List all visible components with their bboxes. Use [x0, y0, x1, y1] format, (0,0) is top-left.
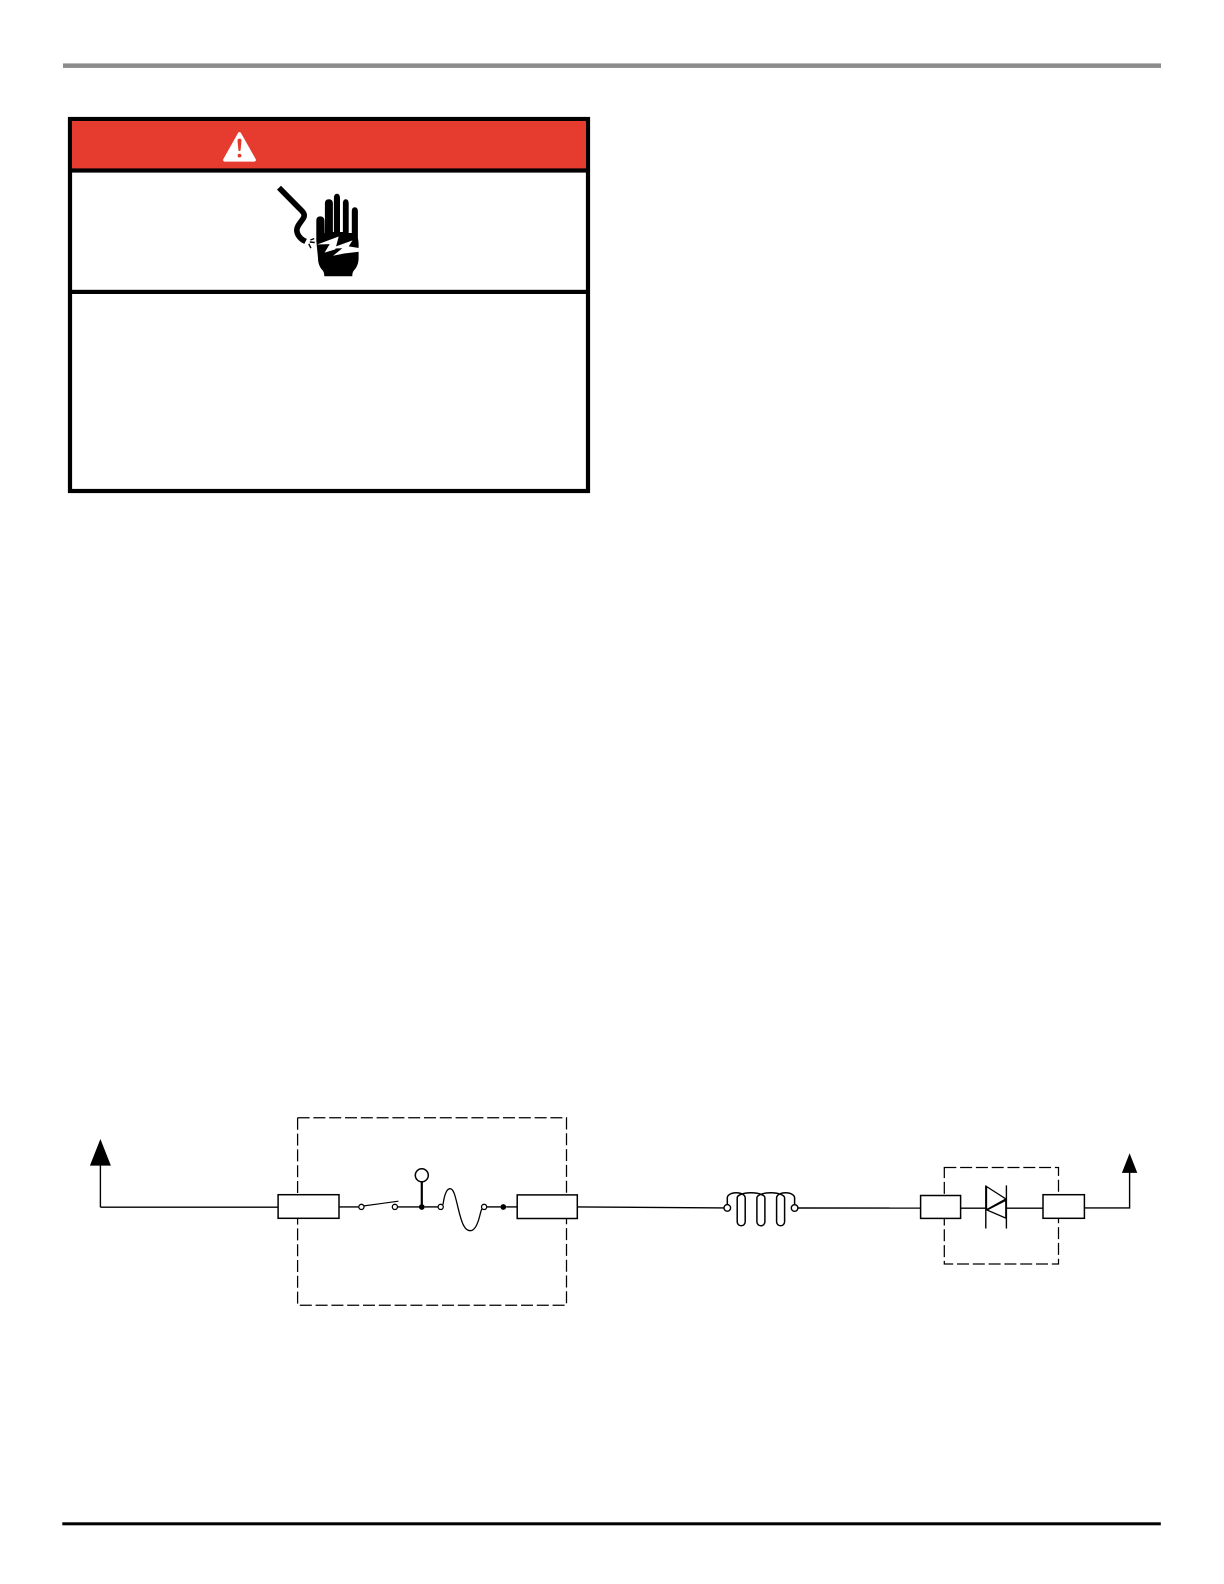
diac upper triangle [987, 1187, 1006, 1210]
warning label header/body separator [68, 168, 590, 172]
wire: block 4 to right terminal [1084, 1172, 1129, 1208]
top horizontal rule [63, 63, 1161, 68]
wire: diac to block 4 [1006, 1207, 1043, 1209]
wire: block 1 to switch contact [339, 1206, 359, 1208]
inductor terminal left (open circle) [724, 1205, 731, 1212]
wire: junction 2 to block 2 [506, 1206, 517, 1208]
switch contact terminal (open circle) [359, 1204, 364, 1209]
fuse terminal 2 (open circle) [482, 1204, 487, 1209]
diac lower triangle [987, 1200, 1006, 1218]
wire: inductor to block 3 [798, 1207, 921, 1209]
right terminal arrow (work clamp) [1122, 1153, 1137, 1173]
warning label outer box [70, 119, 588, 491]
block 1 [278, 1195, 339, 1219]
wire: left arrow stem [99, 1164, 101, 1207]
diac right bar [1005, 1185, 1007, 1228]
junction dot 2 [500, 1204, 506, 1210]
block 3 [921, 1196, 961, 1219]
inductor coil [727, 1193, 794, 1226]
switch actuator stem [421, 1182, 423, 1207]
electric shock pictogram : hand [316, 194, 359, 277]
wire: junction to fuse terminal [425, 1206, 438, 1208]
block 4 [1043, 1195, 1084, 1219]
switch contact terminal 2 (open circle) [392, 1204, 397, 1209]
warning label red header band [72, 121, 586, 169]
wire: block 2 to inductor [577, 1207, 724, 1208]
lightning bolt white cutout 2 with tail [330, 240, 359, 255]
inductor terminal right (open circle) [791, 1205, 798, 1212]
fuse terminal (open circle) [438, 1204, 443, 1209]
bottom horizontal rule [62, 1522, 1161, 1525]
fuse element (sine squiggle) [443, 1189, 482, 1231]
electric shock pictogram : cable [279, 188, 315, 249]
switch actuator knob [415, 1169, 428, 1182]
junction dot (switch actuator node) [419, 1204, 425, 1210]
wire: left lead to block 1 [100, 1206, 278, 1208]
dashed enclosure box 1 (switch/fuse assembly) [298, 1118, 567, 1305]
switch blade [364, 1201, 398, 1206]
cable spark lines [309, 239, 315, 249]
wire: contact 2 to junction dot [398, 1206, 420, 1208]
warning triangle icon [225, 134, 254, 160]
wire: block 3 to diac [961, 1207, 986, 1209]
dashed enclosure box 2 (protection device) [944, 1168, 1058, 1265]
block 2 [517, 1195, 577, 1219]
left terminal arrow (electrode) [90, 1139, 111, 1166]
warning label body/text separator [68, 290, 590, 294]
lightning bolt white cutout 1 [317, 237, 339, 253]
diac left bar [985, 1185, 987, 1228]
wire: fuse to junction dot 2 [487, 1206, 501, 1208]
